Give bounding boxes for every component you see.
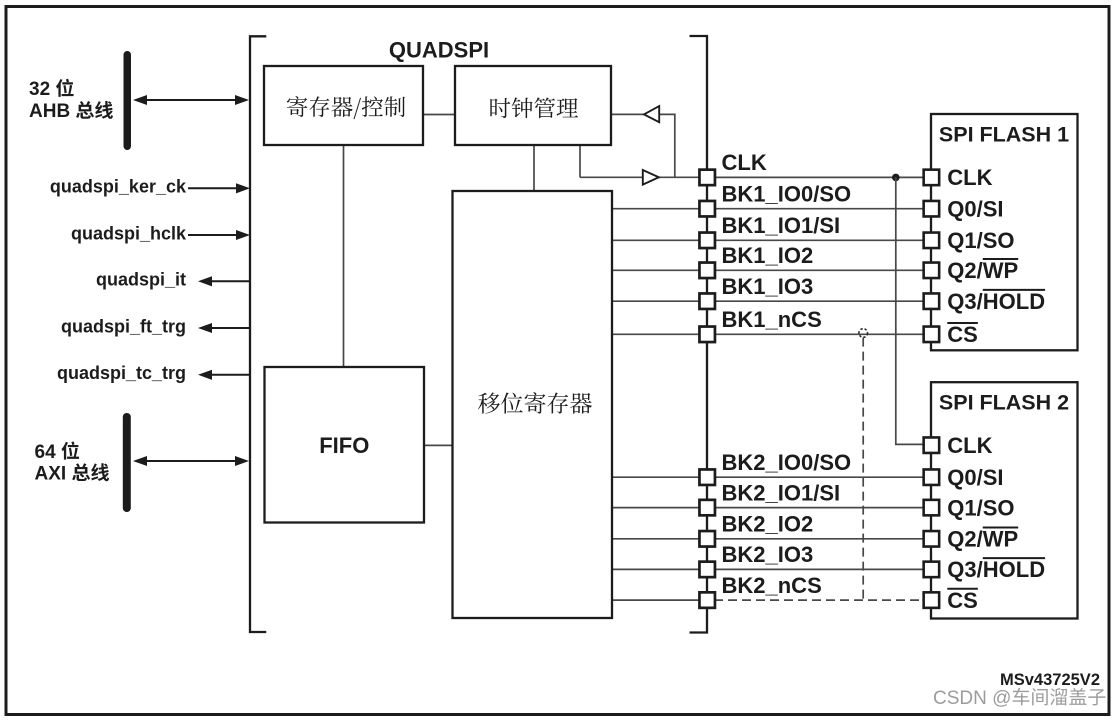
pin SPI FLASH 2 Q3/HOLD — [924, 562, 940, 578]
dashed wire nCS share vertical — [862, 338, 864, 600]
svg-text:quadspi_ft_trg: quadspi_ft_trg — [61, 316, 186, 336]
svg-text:quadspi_ker_ck: quadspi_ker_ck — [50, 177, 187, 197]
chip SPI FLASH 1 — [931, 114, 1078, 350]
label clock management — [490, 97, 578, 118]
AXI bidirectional arrow — [140, 460, 242, 462]
pin SPI FLASH 1 CLK — [924, 170, 940, 186]
pin BK2_IO2 — [699, 531, 715, 547]
svg-text:QUADSPI: QUADSPI — [389, 38, 489, 63]
pin SPI FLASH 1 Q1/SO — [924, 233, 940, 249]
wire CLK to flash2 horizontal — [895, 443, 923, 445]
block clock management — [455, 66, 611, 145]
AHB bidirectional arrow — [140, 99, 242, 101]
svg-text:CSDN @: CSDN @ — [933, 688, 1011, 709]
svg-text:BK2_nCS: BK2_nCS — [722, 573, 822, 598]
AXI bus bar — [123, 413, 131, 512]
svg-text:BK1_nCS: BK1_nCS — [722, 307, 822, 332]
svg-text:BK1_IO1/SI: BK1_IO1/SI — [722, 213, 841, 238]
svg-text:CLK: CLK — [722, 150, 767, 175]
pin BK2_IO1/SI — [699, 500, 715, 515]
wire BK2_IO3 — [612, 568, 923, 570]
svg-text:Q0/SI: Q0/SI — [947, 465, 1003, 490]
wire CLK to flash1 — [715, 176, 923, 178]
label registers/control — [287, 96, 405, 119]
pin BK1_IO0/SO — [699, 201, 715, 217]
pin BK2_IO0/SO — [699, 469, 715, 485]
svg-text:BK2_IO3: BK2_IO3 — [722, 542, 814, 567]
chip SPI FLASH 2 — [931, 382, 1078, 618]
svg-text:Q1/SO: Q1/SO — [947, 228, 1014, 253]
pin SPI FLASH 2 CLK — [924, 437, 940, 453]
pin SPI FLASH 2 CS — [924, 592, 940, 608]
pin BK2_nCS — [699, 592, 715, 608]
pin BK1_IO1/SI — [699, 233, 715, 249]
signal quadspi_ft_trg — [212, 327, 250, 329]
wire register-clock — [423, 114, 455, 116]
svg-text:BK1_IO0/SO: BK1_IO0/SO — [722, 181, 852, 206]
node CLK junction — [892, 174, 900, 182]
svg-text:Q3/HOLD: Q3/HOLD — [947, 289, 1045, 314]
pin SPI FLASH 1 Q0/SI — [924, 201, 940, 217]
wire BK2_IO0/SO — [612, 476, 923, 478]
svg-text:BK1_IO3: BK1_IO3 — [722, 274, 814, 299]
wire BK1_nCS — [612, 333, 923, 335]
svg-text:CLK: CLK — [947, 165, 992, 190]
clock output buffer — [643, 170, 659, 185]
svg-text:quadspi_hclk: quadspi_hclk — [71, 223, 187, 243]
wire CLK out — [580, 176, 644, 178]
wire BK2_nCS solid part — [612, 599, 707, 601]
block registers/control — [264, 66, 423, 145]
wire register to FIFO — [343, 145, 345, 367]
svg-text:Q2/WP: Q2/WP — [947, 258, 1018, 283]
left bracket — [250, 36, 266, 632]
svg-text:quadspi_tc_trg: quadspi_tc_trg — [57, 363, 186, 383]
svg-text:AXI: AXI — [35, 464, 67, 485]
wire BK1_IO2 — [612, 269, 923, 271]
svg-text:BK1_IO2: BK1_IO2 — [722, 243, 814, 268]
wire BK1_IO3 — [612, 300, 923, 302]
wire feedback from clock box — [611, 113, 644, 115]
block shift register — [453, 191, 613, 618]
pin SPI FLASH 1 Q3/HOLD — [924, 293, 940, 309]
wire CLK buffer to pin — [658, 176, 700, 178]
svg-text:BK2_IO0/SO: BK2_IO0/SO — [722, 450, 852, 475]
dashed nCS tap circle — [859, 329, 868, 338]
wire BK1_IO1/SI — [612, 239, 923, 241]
wire BK2_nCS dashed part — [714, 599, 923, 601]
pin SPI FLASH 1 CS — [924, 327, 940, 343]
signal quadspi_it — [212, 280, 250, 282]
pin SPI FLASH 2 Q0/SI — [924, 469, 940, 485]
signal quadspi_ker_ck — [188, 187, 243, 189]
svg-text:MSv43725V2: MSv43725V2 — [1000, 671, 1100, 689]
wire BK1_IO0/SO — [612, 208, 923, 210]
svg-text:64: 64 — [35, 442, 57, 463]
wire feedback buffer right — [659, 113, 675, 115]
svg-text:SPI FLASH 1: SPI FLASH 1 — [939, 123, 1069, 147]
svg-text:Q3/HOLD: Q3/HOLD — [947, 557, 1045, 582]
svg-text:CS: CS — [947, 588, 978, 613]
pin SPI FLASH 2 Q1/SO — [924, 500, 940, 515]
svg-text:quadspi_it: quadspi_it — [96, 270, 186, 290]
pin SPI FLASH 2 Q2/WP — [924, 531, 940, 547]
pin BK1_nCS — [699, 327, 715, 343]
signal quadspi_hclk — [188, 234, 243, 236]
wire CLK to flash2 vertical — [895, 177, 897, 444]
svg-text:CLK: CLK — [947, 433, 992, 458]
svg-text:AHB: AHB — [29, 101, 70, 122]
wire clock down to CLK — [579, 145, 581, 177]
wire BK2_IO1/SI — [612, 507, 923, 509]
svg-text:SPI FLASH 2: SPI FLASH 2 — [939, 391, 1069, 415]
clock feedback buffer — [644, 106, 659, 122]
svg-text:32: 32 — [29, 79, 50, 100]
AHB bus bar — [124, 51, 132, 150]
svg-text:Q1/SO: Q1/SO — [947, 495, 1014, 520]
right bracket / pin rail — [690, 36, 708, 633]
pin BK1_IO2 — [699, 263, 715, 279]
svg-text:BK2_IO1/SI: BK2_IO1/SI — [722, 480, 841, 505]
label shift register — [478, 392, 592, 414]
svg-text:FIFO: FIFO — [319, 433, 369, 458]
signal quadspi_tc_trg — [212, 374, 250, 376]
svg-text:Q2/WP: Q2/WP — [947, 527, 1018, 552]
svg-text:BK2_IO2: BK2_IO2 — [722, 512, 814, 537]
wire clock to shift register — [533, 145, 535, 191]
wire FIFO to shift register — [424, 444, 453, 446]
wire BK2_IO2 — [612, 538, 923, 540]
svg-text:Q0/SI: Q0/SI — [947, 197, 1003, 222]
svg-text:CS: CS — [947, 322, 978, 347]
pin BK1_IO3 — [699, 293, 715, 309]
wire feedback vertical — [674, 114, 676, 178]
pin BK2_IO3 — [699, 562, 715, 578]
pin CLK — [699, 170, 715, 186]
block FIFO — [265, 367, 425, 523]
pin SPI FLASH 1 Q2/WP — [924, 263, 940, 279]
